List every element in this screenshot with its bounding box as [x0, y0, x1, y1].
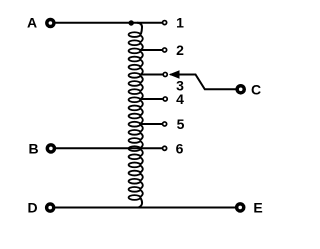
svg-text:A: A — [27, 15, 37, 31]
svg-text:4: 4 — [176, 91, 184, 107]
svg-text:E: E — [253, 200, 262, 216]
svg-text:D: D — [27, 200, 37, 216]
svg-text:5: 5 — [177, 116, 185, 132]
svg-text:B: B — [28, 140, 38, 156]
svg-text:C: C — [251, 82, 261, 98]
svg-text:2: 2 — [176, 42, 184, 58]
svg-text:1: 1 — [176, 15, 184, 31]
svg-text:6: 6 — [176, 140, 184, 156]
